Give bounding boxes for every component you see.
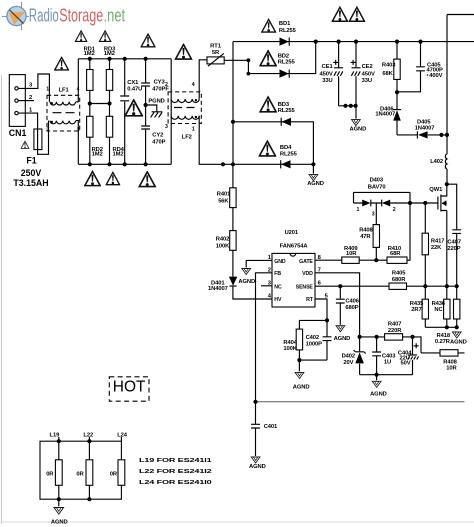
resistor R417	[424, 203, 426, 286]
svg-text:L22 FOR ES241I2: L22 FOR ES241I2	[139, 469, 212, 475]
warning triangle near F1	[21, 141, 29, 148]
wire transformer primary stub	[447, 15, 474, 155]
wire CN1 pin3 to LF1 pin1	[18, 74, 49, 102]
svg-text:D402: D402	[342, 353, 355, 359]
svg-text:AGND: AGND	[293, 385, 310, 391]
svg-text:HV: HV	[274, 297, 282, 303]
svg-text:CY2: CY2	[152, 132, 163, 138]
ground AGND R418	[452, 332, 461, 338]
svg-text:250V: 250V	[21, 168, 42, 178]
svg-text:R408: R408	[443, 359, 457, 365]
capacitor C407	[447, 184, 457, 286]
svg-text:400V: 400V	[429, 73, 442, 79]
svg-text:U201: U201	[285, 230, 299, 236]
resistor R435	[424, 286, 426, 327]
wire N rail	[78, 163, 171, 165]
wire RD midpoint tie	[90, 103, 110, 105]
resistor R407	[385, 334, 403, 340]
svg-text:2: 2	[393, 207, 396, 213]
svg-text:0.47U: 0.47U	[127, 86, 142, 92]
wire U201 pin3 stub	[261, 285, 272, 287]
ground AGND C406	[336, 326, 345, 332]
svg-text:VDD: VDD	[302, 271, 313, 277]
svg-text:AGND: AGND	[238, 279, 255, 285]
svg-text:68K: 68K	[382, 71, 393, 77]
svg-text:2: 2	[46, 127, 49, 133]
connector CN1	[9, 75, 27, 138]
wire CE bottom bus	[339, 105, 356, 107]
diode D405	[397, 119, 447, 138]
resistor R418	[456, 286, 458, 327]
capacitor C401	[255, 402, 257, 456]
svg-text:RL255: RL255	[279, 28, 297, 34]
resistor R410	[377, 259, 387, 261]
wire LF2 top right to RT1	[199, 60, 207, 99]
resistor RD2	[89, 104, 91, 165]
wire R410 corner up	[407, 203, 410, 260]
svg-text:1M2: 1M2	[113, 152, 124, 158]
svg-text:Storage: Storage	[59, 5, 103, 25]
resistor R401	[232, 164, 234, 188]
svg-text:NC: NC	[274, 284, 282, 290]
svg-text:680R: 680R	[392, 277, 406, 283]
svg-text:5R: 5R	[212, 50, 220, 56]
svg-text:PGND: PGND	[148, 98, 164, 104]
wire U201 pin7 VDD	[315, 273, 360, 337]
svg-text:33U: 33U	[362, 78, 372, 84]
junction dots top rail	[337, 40, 341, 44]
svg-text:1N4007: 1N4007	[415, 125, 435, 131]
svg-text:2: 2	[29, 95, 32, 101]
svg-text:R408: R408	[359, 227, 373, 233]
resistor R405	[407, 285, 457, 287]
junction dots filter rails	[123, 57, 127, 61]
svg-text:100K: 100K	[216, 244, 230, 250]
ground AGND C401	[251, 457, 260, 463]
wire BD3 row	[233, 122, 313, 174]
svg-text:0R: 0R	[110, 472, 118, 478]
svg-text:R407: R407	[388, 322, 401, 328]
svg-text:GATE: GATE	[299, 259, 313, 265]
fuse F1	[34, 129, 42, 150]
svg-text:AGND: AGND	[307, 181, 324, 187]
capacitor C403	[376, 337, 378, 375]
ground AGND R404	[298, 360, 300, 371]
wire bridge left vertical	[232, 42, 234, 165]
resistor R404	[298, 320, 300, 360]
svg-text:1U: 1U	[384, 360, 391, 366]
wire feedback bottom rail	[256, 401, 465, 403]
wire U201 pin8 GATE	[315, 259, 342, 261]
warning triangles above RD1 RD3	[75, 31, 87, 42]
ground AGND bridge	[309, 175, 318, 181]
svg-text:L19 FOR ES241I1: L19 FOR ES241I1	[139, 458, 213, 464]
svg-text:R405: R405	[392, 271, 406, 277]
wire QW1 source down	[446, 211, 448, 287]
capacitor CY2	[145, 130, 147, 165]
wire VDD cap bottom tie	[360, 374, 413, 376]
ground AGND CE caps	[351, 120, 360, 126]
ground AGND D402	[376, 375, 378, 381]
svg-text:RL255: RL255	[278, 108, 296, 114]
svg-text:L24 FOR ES241I0: L24 FOR ES241I0	[139, 480, 212, 486]
svg-text:1N4007: 1N4007	[208, 286, 228, 292]
svg-text:0R: 0R	[46, 472, 54, 478]
wire CN1 pin2 stub	[18, 100, 34, 102]
warning triangle above LF2	[176, 44, 192, 59]
common-mode choke LF2	[165, 59, 201, 165]
wire VDD node line	[360, 337, 421, 353]
svg-text:D403: D403	[370, 178, 384, 184]
svg-text:F1: F1	[26, 155, 36, 165]
svg-text:2R7: 2R7	[411, 307, 421, 313]
diode BD2	[278, 54, 296, 78]
HOT label box	[109, 377, 149, 401]
capacitor CY3	[145, 59, 147, 126]
svg-text:QW1: QW1	[429, 187, 443, 193]
resistor R403	[396, 42, 398, 93]
svg-text:50V: 50V	[401, 360, 411, 366]
zener D402	[342, 337, 366, 375]
wire LF2 bottom right to bridge	[199, 116, 313, 165]
svg-text:1: 1	[357, 207, 360, 213]
svg-text:AGND: AGND	[350, 126, 367, 132]
svg-text:R404: R404	[283, 340, 297, 346]
wire gate line	[410, 202, 438, 204]
svg-text:RT: RT	[306, 297, 314, 303]
capacitor CE1	[319, 42, 343, 106]
wire U201 pin2 FB down	[256, 273, 273, 402]
capacitor CE2	[351, 42, 375, 119]
capacitor C406	[339, 286, 341, 325]
faint scan artifact lines	[1, 75, 3, 524]
resistor RD4	[109, 104, 111, 165]
warning triangle above LF1	[55, 57, 69, 70]
junction dots RD network	[88, 57, 92, 61]
svg-text:2: 2	[165, 82, 168, 88]
svg-text:RL255: RL255	[280, 152, 298, 158]
svg-text:BD1: BD1	[279, 21, 291, 27]
svg-text:BD3: BD3	[278, 102, 290, 108]
common-mode choke LF1	[46, 87, 79, 134]
wire U201 pin6 SENSE line	[315, 285, 389, 287]
svg-text:L19: L19	[50, 432, 61, 438]
capacitor C402	[326, 320, 328, 360]
resistor R402	[232, 208, 234, 231]
svg-text:C407: C407	[447, 239, 460, 245]
svg-text:T3.15AH: T3.15AH	[13, 178, 48, 188]
svg-text:1M2: 1M2	[104, 51, 115, 57]
svg-text:0.27R: 0.27R	[435, 339, 451, 345]
svg-text:AGND: AGND	[334, 336, 351, 342]
warning triangles below N rail	[85, 171, 100, 185]
resistor RD3	[109, 59, 111, 104]
svg-text:1M2: 1M2	[92, 152, 103, 158]
svg-text:10R: 10R	[346, 251, 357, 257]
resistor RD1	[89, 59, 91, 104]
svg-text:LF1: LF1	[59, 88, 70, 94]
svg-text:R403: R403	[382, 62, 396, 68]
svg-text:CE2: CE2	[362, 64, 373, 70]
svg-text:HOT: HOT	[113, 379, 146, 396]
svg-text:CY3: CY3	[154, 80, 166, 86]
warning triangle above CY3	[141, 34, 155, 47]
svg-text:BAV70: BAV70	[368, 185, 386, 191]
svg-text:AGND: AGND	[370, 391, 387, 397]
svg-text:33U: 33U	[322, 78, 332, 84]
diode D401	[208, 250, 272, 299]
resistor R408 10R	[421, 352, 465, 354]
diode BD4	[280, 145, 298, 169]
ground AGND pin1	[242, 268, 251, 274]
wire LF1 pin4 up to L rail	[76, 59, 78, 102]
svg-text:AGND: AGND	[249, 464, 266, 470]
svg-text:220R: 220R	[388, 328, 402, 334]
svg-text:C403: C403	[382, 353, 396, 359]
svg-text:.net: .net	[104, 5, 126, 25]
logo globe icon	[2, 2, 29, 30]
svg-text:RT1: RT1	[210, 43, 222, 49]
svg-text:56K: 56K	[218, 199, 229, 205]
svg-text:22K: 22K	[431, 245, 442, 251]
junction dots sense line	[338, 284, 342, 288]
IC U201 FAN6754A	[268, 230, 329, 307]
wire U201 pin1 GND	[246, 260, 272, 267]
svg-text:4: 4	[192, 82, 195, 88]
svg-text:AGND: AGND	[51, 519, 68, 525]
diode BD3	[278, 102, 296, 126]
ground AGND L19	[58, 499, 60, 506]
capacitor CX1	[124, 59, 126, 165]
svg-text:L402: L402	[430, 159, 443, 165]
svg-text:1M2: 1M2	[84, 51, 95, 57]
svg-text:L24: L24	[117, 432, 128, 438]
svg-text:CE1: CE1	[322, 64, 334, 70]
svg-text:CN1: CN1	[9, 128, 27, 138]
svg-text:R401: R401	[217, 191, 231, 197]
wire RT node bus	[299, 320, 327, 360]
wire RT1 to BD2	[224, 60, 248, 73]
svg-text:BD4: BD4	[280, 145, 292, 151]
svg-text:68R: 68R	[390, 251, 401, 257]
wire sense resistor bottom tie	[425, 326, 456, 328]
svg-text:C406: C406	[345, 299, 359, 305]
svg-text:1N4007: 1N4007	[375, 112, 395, 118]
svg-text:R402: R402	[216, 237, 229, 243]
diode D406	[375, 92, 401, 135]
capacitor C405	[397, 42, 421, 92]
svg-text:AGND: AGND	[450, 339, 467, 345]
svg-text:220P: 220P	[447, 246, 460, 252]
wire BD2 row	[248, 42, 315, 74]
svg-text:1000P: 1000P	[306, 342, 322, 348]
svg-text:1: 1	[46, 87, 49, 93]
svg-text:R436: R436	[432, 301, 446, 307]
svg-text:3: 3	[165, 124, 168, 130]
svg-text:3: 3	[372, 211, 375, 217]
svg-text:FB: FB	[274, 271, 281, 277]
svg-text:20V: 20V	[343, 360, 353, 366]
svg-text:L22: L22	[83, 432, 93, 438]
wire LF1 pin3 down to N rail	[76, 121, 78, 165]
junction dots bridge	[231, 120, 235, 124]
svg-text:R417: R417	[431, 239, 444, 245]
warning triangle below CX1	[125, 100, 142, 116]
inductor option box L19 L22 L24	[40, 432, 128, 501]
svg-text:Radio: Radio	[29, 5, 59, 25]
svg-text:450V: 450V	[319, 71, 332, 77]
dual diode D403	[354, 178, 411, 218]
wire L rail	[78, 58, 171, 60]
inductor L402	[445, 154, 447, 169]
capacitor C404	[398, 337, 419, 375]
diode BD1	[279, 21, 297, 46]
wire B+ top rail	[233, 41, 474, 43]
svg-text:NC: NC	[434, 307, 443, 313]
svg-text:R435: R435	[410, 301, 424, 307]
svg-text:LF2: LF2	[182, 135, 192, 141]
thermistor RT1	[207, 43, 224, 66]
svg-text:100K: 100K	[283, 346, 297, 352]
svg-text:680P: 680P	[345, 305, 358, 311]
wire U201 pin5 RT	[315, 299, 327, 320]
svg-text:470P: 470P	[152, 140, 165, 146]
warning triangles above CE caps	[332, 7, 347, 21]
svg-text:RL255: RL255	[278, 60, 296, 66]
svg-text:47R: 47R	[360, 234, 371, 240]
wire CN1 pin1 to fuse	[18, 113, 48, 154]
resistor R436	[446, 286, 448, 327]
svg-text:0R: 0R	[76, 472, 84, 478]
resistor R408 47R	[375, 203, 377, 260]
svg-text:C402: C402	[306, 335, 319, 341]
svg-text:SENSE: SENSE	[296, 284, 314, 290]
svg-text:10R: 10R	[446, 366, 457, 372]
svg-text:C401: C401	[264, 424, 278, 430]
svg-text:FAN6754A: FAN6754A	[280, 244, 309, 250]
resistor R409	[359, 259, 377, 261]
svg-text:450V: 450V	[362, 71, 375, 77]
svg-text:GND: GND	[274, 259, 286, 265]
svg-text:CX1: CX1	[127, 80, 139, 86]
svg-text:1: 1	[192, 127, 195, 133]
transistor QW1	[429, 184, 447, 211]
